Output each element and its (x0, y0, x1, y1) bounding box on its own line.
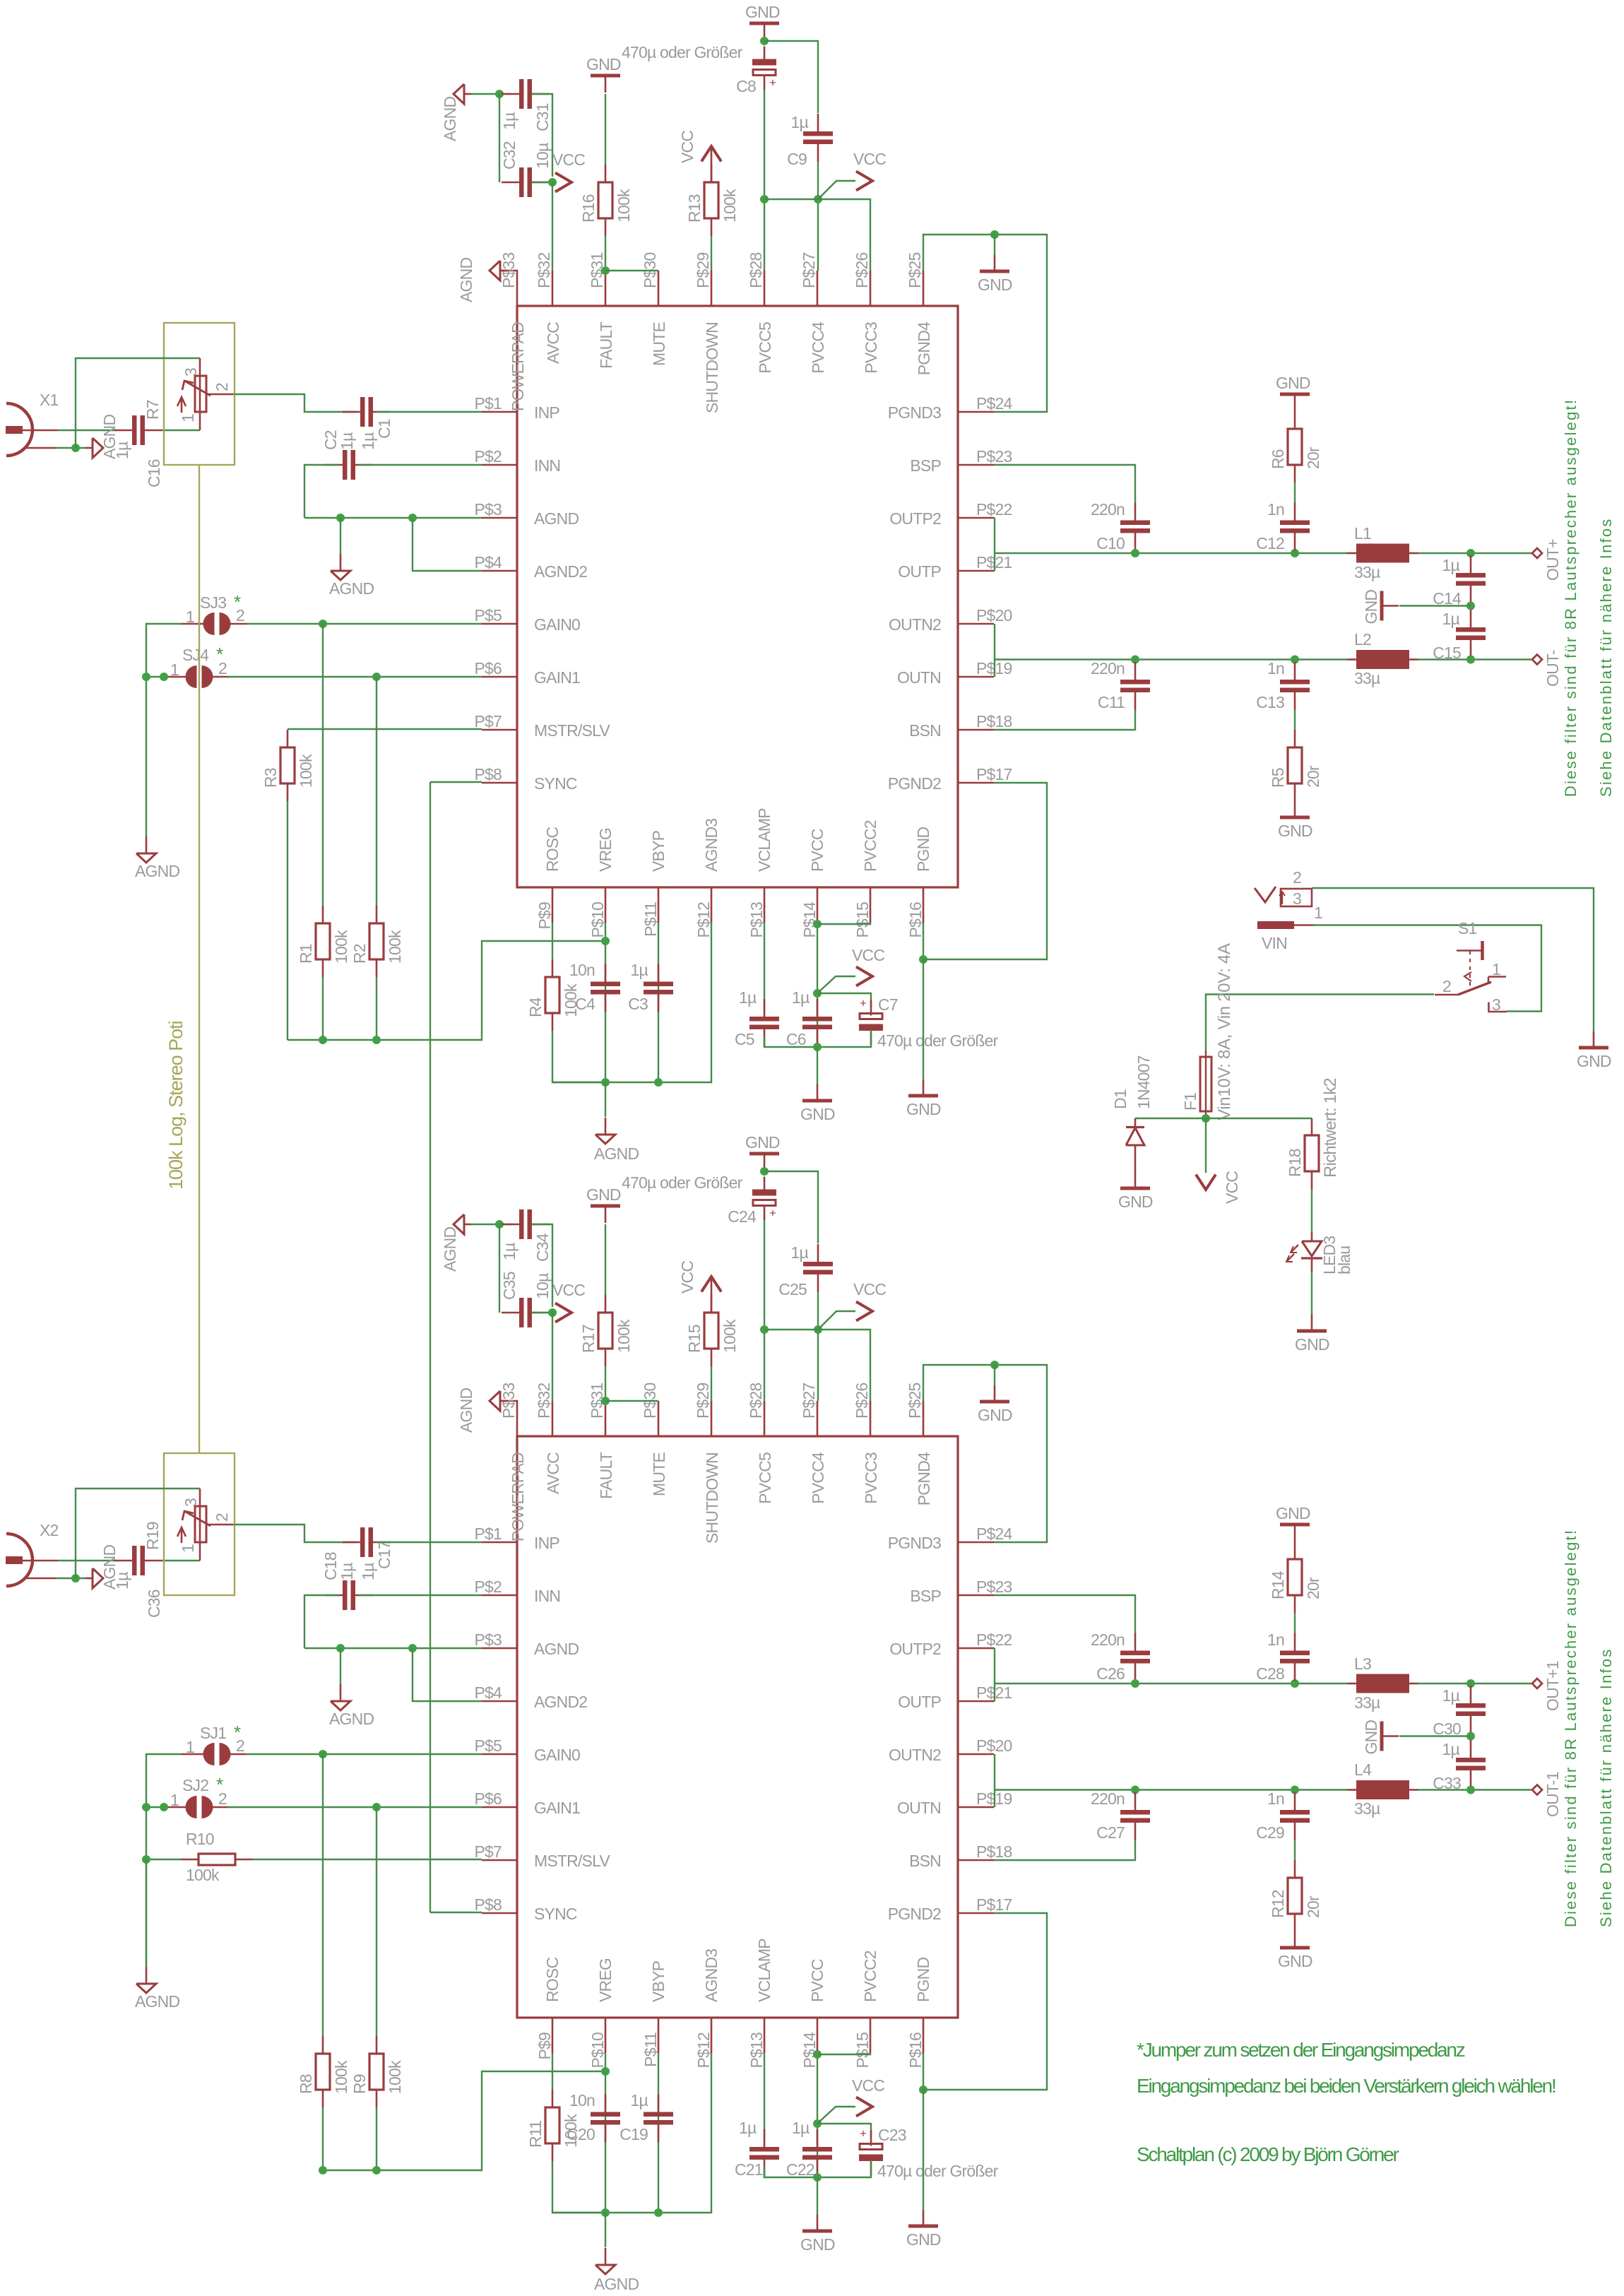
svg-text:C34: C34 (533, 1233, 552, 1262)
svg-text:GND: GND (1362, 1720, 1380, 1755)
svg-text:BSP: BSP (910, 456, 941, 475)
wire L1 to OUT+ (1418, 552, 1531, 554)
svg-text:1µ: 1µ (113, 1572, 131, 1590)
junction pvcc rail left (760, 1325, 769, 1334)
svg-text:FAULT: FAULT (597, 321, 615, 369)
capacitor C13 1n snubber (1294, 662, 1296, 680)
wire C1 to INP P$1 (377, 1541, 482, 1543)
svg-text:*: * (234, 591, 241, 613)
wire C7 branch top (817, 993, 871, 1007)
svg-text:1µ: 1µ (1442, 556, 1460, 574)
junction pvcc rail c9 (814, 195, 822, 203)
Apin P$13 VCLAMP (bottom) (764, 887, 766, 923)
potentiometer R19 100k gang (199, 1506, 201, 1542)
svg-text:P$5: P$5 (474, 1736, 502, 1755)
wire C2 left to AGND row (304, 1595, 339, 1648)
svg-text:P$29: P$29 (694, 1383, 712, 1419)
svg-text:OUTP2: OUTP2 (889, 1640, 941, 1658)
svg-text:P$6: P$6 (474, 659, 502, 677)
Bpin P$25 PGND4 (top) (923, 1401, 925, 1436)
wire SJ bus lower (146, 1859, 147, 1966)
capacitor C2 1u INN coupling (325, 464, 343, 466)
olive stereo-poti link line (198, 465, 200, 1453)
resistor R18 LED series (1311, 1118, 1313, 1135)
svg-text:GND: GND (1278, 1952, 1312, 1970)
svg-text:P$5: P$5 (474, 606, 502, 625)
svg-text:C11: C11 (1098, 693, 1125, 711)
supply VCC main (1196, 1175, 1216, 1190)
ground GND out mid (1380, 591, 1384, 621)
svg-text:1: 1 (186, 608, 194, 626)
svg-text:100k: 100k (332, 2060, 350, 2094)
junction C6 bottom (813, 2173, 822, 2182)
fuse F1 (1200, 1057, 1211, 1111)
svg-text:1µ: 1µ (500, 1243, 518, 1260)
wire GAIN1 drop (376, 1807, 377, 2037)
Bpin P$6 GAIN1 (left) (482, 1806, 517, 1809)
svg-text:C24: C24 (728, 1207, 757, 1226)
wire GAIN0 drop (322, 624, 324, 906)
svg-text:INP: INP (534, 1534, 559, 1552)
wire AGND3 P$12 (658, 2053, 711, 2213)
svg-text:PVCC: PVCC (808, 1959, 826, 2002)
junction avcc vcc (548, 178, 557, 187)
Apin P$15 PVCC2 (bottom) (870, 887, 872, 923)
svg-text:AVCC: AVCC (544, 322, 562, 364)
pin OUT- (1532, 1785, 1542, 1795)
ground GND d1 (1134, 1172, 1137, 1188)
wire to VCC (1205, 1118, 1207, 1173)
wire AGND row P$3 (304, 1647, 482, 1649)
junction fault/mute (601, 1397, 610, 1405)
Bpin P$1 INP (left) (482, 1541, 517, 1544)
ground GND top (749, 22, 779, 25)
svg-text:P$22: P$22 (976, 1631, 1012, 1649)
wire gnd stem (994, 1365, 995, 1385)
svg-text:1µ: 1µ (1442, 1740, 1460, 1758)
ground AGND powerpad (490, 1391, 500, 1411)
svg-text:VCC: VCC (1223, 1171, 1241, 1204)
svg-text:P$28: P$28 (747, 1383, 765, 1419)
Bpin P$2 INN (left) (482, 1594, 517, 1597)
Apin P$7 MSTR/SLV (left) (482, 729, 517, 731)
svg-text:1µ: 1µ (113, 442, 131, 459)
wire MUTE bridge (605, 1400, 658, 1402)
svg-text:OUT-: OUT- (1543, 650, 1562, 687)
Bpin P$33 POWERPAD (top) (500, 1401, 517, 1436)
svg-text:OUT+: OUT+ (1543, 539, 1562, 581)
svg-text:1n: 1n (1267, 1631, 1284, 1649)
supply VCC shutdown (701, 146, 721, 162)
wire AGND2 P$4 (413, 1648, 482, 1701)
svg-text:VCC: VCC (678, 1261, 697, 1294)
svg-text:P$14: P$14 (800, 901, 819, 938)
svg-text:OUTN: OUTN (897, 1799, 941, 1817)
svg-text:C36: C36 (145, 1590, 163, 1618)
svg-text:C19: C19 (620, 2125, 648, 2143)
Bpin P$32 AVCC (top) (552, 1401, 554, 1436)
resistor R2 100k (376, 906, 378, 923)
wire C2 left to AGND row (304, 465, 339, 518)
wire AVCC P$32 (552, 1313, 553, 1401)
Apin P$11 VBYP (bottom) (658, 887, 660, 923)
svg-text:AGND: AGND (594, 2275, 639, 2293)
svg-text:R17: R17 (579, 1325, 598, 1353)
svg-text:100k: 100k (615, 189, 633, 223)
svg-text:C13: C13 (1256, 693, 1284, 711)
jumper SJ3 (182, 623, 206, 625)
svg-text:GAIN1: GAIN1 (534, 668, 580, 687)
capacitor C4 10n (605, 964, 607, 982)
svg-text:R14: R14 (1269, 1570, 1287, 1599)
svg-text:C26: C26 (1096, 1664, 1125, 1683)
svg-text:P$1: P$1 (474, 1525, 502, 1543)
svg-text:F1: F1 (1181, 1093, 1199, 1111)
inductor L4 33u (1348, 1789, 1357, 1791)
svg-text:P$11: P$11 (641, 902, 660, 937)
junction AGND row 2 (408, 1644, 417, 1652)
svg-text:*: * (216, 1774, 223, 1795)
ground AGND jumper bus (146, 1967, 148, 1984)
junction VCC node (813, 2119, 822, 2128)
capacitor C26 220n bootstrap (1134, 1633, 1137, 1651)
svg-text:3: 3 (182, 1498, 200, 1507)
wire PGND4 bracket (923, 1365, 1047, 1542)
resistor R15 100k SHUTDOWN pullup (711, 1295, 713, 1313)
svg-text:+: + (860, 2127, 867, 2141)
svg-text:P$12: P$12 (694, 2032, 713, 2069)
svg-text:20r: 20r (1304, 1577, 1322, 1599)
svg-text:PGND4: PGND4 (915, 321, 933, 375)
junction VCC node (813, 989, 822, 998)
svg-text:R10: R10 (186, 1830, 214, 1848)
wire C1 to INP P$1 (377, 411, 482, 413)
svg-text:100k: 100k (615, 1319, 633, 1353)
svg-text:L2: L2 (1354, 630, 1371, 649)
pin OUT+ (1532, 1679, 1542, 1688)
svg-text:P$13: P$13 (747, 902, 766, 938)
connector X2 RCA input jack (6, 1534, 32, 1586)
wire R6 to C12 (1294, 483, 1296, 503)
wire C32 left leg (499, 94, 500, 182)
svg-text:GND: GND (978, 1406, 1012, 1424)
junction gnd c8 (760, 37, 769, 45)
wire X1 tip to C16 (58, 430, 117, 431)
junction GAIN0 (319, 620, 327, 628)
wire C32 left leg (499, 1224, 500, 1313)
svg-text:PGND: PGND (914, 1958, 932, 2002)
svg-text:GND: GND (745, 3, 780, 21)
wire ROSC P$9 (552, 2053, 553, 2090)
Bpin P$12 AGND3 (bottom) (711, 2018, 713, 2053)
wire VREG P$10 (605, 923, 606, 1082)
junction pvcc rail left (760, 195, 769, 203)
wire poti pin3 loop (199, 358, 201, 376)
wire ROSC P$9 (552, 923, 553, 959)
junction R10 left (142, 1855, 150, 1864)
svg-text:P$12: P$12 (694, 902, 713, 938)
svg-text:C31: C31 (533, 103, 552, 131)
junction C12 out (1291, 549, 1299, 557)
wire MSTR/SLV P$7 (288, 728, 482, 730)
svg-text:GND: GND (586, 1185, 621, 1204)
svg-text:Richtwert: 1k2: Richtwert: 1k2 (1321, 1078, 1340, 1178)
svg-text:1µ: 1µ (500, 112, 518, 130)
capacitor C29 1n snubber (1294, 1792, 1296, 1810)
junction avcc caps (495, 90, 504, 98)
svg-text:C17: C17 (375, 1541, 393, 1569)
junction gain bus R1 (319, 2166, 327, 2174)
wire GAIN0 drop (322, 1754, 324, 2037)
svg-text:PGND3: PGND3 (888, 1534, 941, 1552)
Apin P$31 FAULT (top) (605, 271, 607, 306)
supply VCC arrow mid (856, 2097, 872, 2117)
wire X1 ring to AGND (57, 447, 85, 449)
wire VCLAMP P$13 (764, 2053, 765, 2141)
junction C3 bottom (654, 1078, 663, 1087)
connector VIN pin1 (1257, 921, 1294, 929)
svg-text:1µ: 1µ (739, 988, 757, 1007)
svg-text:C10: C10 (1096, 534, 1125, 552)
svg-text:MSTR/SLV: MSTR/SLV (534, 1852, 610, 1870)
svg-text:GND: GND (1276, 374, 1310, 392)
svg-text:P$9: P$9 (535, 902, 554, 930)
svg-text:C5: C5 (735, 1030, 754, 1048)
wire AGND row P$3 (304, 517, 482, 519)
wire agnd3 bus (552, 1082, 658, 1083)
resistor R1 100k (322, 906, 324, 923)
svg-text:GND: GND (800, 2235, 835, 2254)
svg-text:P$25: P$25 (906, 252, 924, 288)
svg-text:100k Log, Stereo Poti: 100k Log, Stereo Poti (165, 1021, 186, 1190)
ground AGND powerpad (490, 261, 500, 280)
svg-text:10µ: 10µ (533, 143, 552, 169)
wire C13 to R5 (1294, 1840, 1296, 1860)
ground GND snubber+ (1280, 393, 1310, 396)
svg-text:P$3: P$3 (474, 500, 502, 519)
svg-text:PVCC5: PVCC5 (756, 322, 774, 374)
svg-text:GND: GND (800, 1105, 835, 1123)
supply VCC avcc (555, 173, 571, 192)
junction C13 out (1291, 1786, 1299, 1794)
svg-text:C20: C20 (567, 2125, 595, 2143)
svg-text:470µ oder Größer: 470µ oder Größer (622, 1173, 743, 1192)
ground GND snubber- (1294, 801, 1296, 817)
junction C12 out (1291, 1679, 1299, 1688)
wire PGND to GND (923, 959, 924, 1079)
wire to AGND (605, 1082, 606, 1117)
svg-text:GND: GND (906, 2230, 941, 2249)
Bpin P$11 VBYP (bottom) (658, 2018, 660, 2053)
ground AGND input (93, 438, 103, 458)
capacitor C3 1u (658, 964, 660, 982)
svg-text:VBYP: VBYP (649, 830, 668, 872)
svg-text:GND: GND (1118, 1193, 1153, 1211)
wire X2 ring to AGND (57, 1578, 85, 1579)
junction pgnd4 (990, 1361, 999, 1369)
svg-text:1µ: 1µ (739, 2119, 757, 2137)
Apin P$28 PVCC5 (top) (764, 271, 766, 306)
wire C9 branch (764, 1171, 818, 1243)
Bpin P$14 PVCC (bottom) (817, 2018, 819, 2053)
pin OUT+ (1532, 548, 1542, 558)
svg-text:PVCC4: PVCC4 (809, 321, 827, 374)
junction SJ4 pin1 (160, 1803, 168, 1811)
wire C31 right (532, 1224, 552, 1307)
svg-text:Vin10V: 8A, Vin 20V: 4A: Vin10V: 8A, Vin 20V: 4A (1215, 943, 1234, 1120)
wire pvcc rail (764, 199, 870, 271)
svg-text:P$11: P$11 (641, 2032, 660, 2067)
ground GND pgnd4 (994, 1385, 996, 1402)
ground AGND below P$3 (340, 1684, 342, 1701)
wire GAIN0 P$5 (247, 1753, 482, 1755)
wire L2 to OUT- (1418, 658, 1531, 660)
wire OUTP pin stubs (994, 1647, 995, 1649)
svg-text:Schaltplan (c) 2009 by Björn G: Schaltplan (c) 2009 by Björn Görner (1137, 2143, 1399, 2165)
wire LED3 to GND (1311, 1272, 1312, 1315)
svg-text:PVCC2: PVCC2 (861, 1951, 879, 2002)
svg-text:SYNC: SYNC (534, 774, 577, 793)
svg-text:PGND2: PGND2 (888, 1905, 941, 1923)
ground GND mid (817, 1084, 819, 1101)
svg-text:MSTR/SLV: MSTR/SLV (534, 721, 610, 740)
Bpin P$10 VREG (bottom) (605, 2018, 607, 2053)
wire R13 to P$29 (711, 1366, 712, 1401)
IC UA: class-D amplifier block (517, 306, 958, 887)
svg-text:PVCC2: PVCC2 (861, 820, 879, 872)
svg-text:GND: GND (1295, 1335, 1329, 1354)
Apin P$4 AGND2 (left) (482, 570, 517, 572)
svg-text:P$15: P$15 (853, 902, 872, 938)
ground GND pgnd (923, 2210, 925, 2226)
wire pvcc rail (764, 1330, 870, 1401)
svg-text:P$26: P$26 (853, 252, 871, 288)
Apin P$3 AGND (left) (482, 517, 517, 519)
svg-text:C9: C9 (787, 150, 807, 168)
svg-text:P$16: P$16 (906, 2032, 925, 2069)
svg-text:470µ oder Größer: 470µ oder Größer (877, 2162, 999, 2180)
svg-text:220n: 220n (1091, 1789, 1125, 1808)
wire SJ pin1 bus (146, 1754, 182, 1967)
capacitor C24 470u bulk (764, 1177, 766, 1192)
capacitor C22 1u PVCC (817, 2129, 819, 2147)
svg-text:1µ: 1µ (338, 432, 356, 450)
junction SJ bus (142, 1803, 150, 1811)
capacitor C15 1u out filter (1470, 610, 1472, 627)
svg-text:SHUTDOWN: SHUTDOWN (703, 322, 721, 413)
svg-text:PVCC5: PVCC5 (756, 1452, 774, 1504)
ground AGND analog (605, 2248, 607, 2265)
svg-text:SJ4: SJ4 (182, 646, 209, 664)
svg-text:VBYP: VBYP (649, 1960, 668, 2002)
ground AGND avcc (454, 84, 464, 104)
wire C2 to INN P$2 (359, 464, 482, 466)
svg-text:P$10: P$10 (588, 2032, 607, 2069)
wire VBYP P$11 (658, 923, 659, 1082)
svg-text:GAIN1: GAIN1 (534, 1799, 580, 1817)
svg-text:blau: blau (1335, 1246, 1353, 1274)
Bpin P$18 BSN (right) (959, 1859, 994, 1862)
svg-text:PGND4: PGND4 (915, 1452, 933, 1505)
connector VIN switch box (1281, 889, 1312, 906)
junction SJ bus (142, 673, 150, 681)
svg-text:P$13: P$13 (747, 2032, 766, 2069)
svg-text:P$32: P$32 (535, 252, 553, 288)
junction VREG top (601, 2067, 610, 2076)
svg-text:L1: L1 (1354, 524, 1371, 543)
supply VCC arrow mid (856, 967, 872, 986)
junction C15 out (1466, 1786, 1475, 1794)
ground GND pgnd4 (994, 255, 996, 271)
junction vcc node (1202, 1114, 1210, 1123)
wire C5 bottom (764, 1036, 817, 1047)
wire poti wiper to C1 (235, 1525, 357, 1542)
ground AGND analog (605, 1118, 607, 1135)
svg-text:1: 1 (179, 1544, 197, 1553)
svg-text:+: + (860, 997, 867, 1010)
svg-text:X2: X2 (40, 1521, 59, 1539)
svg-text:P$9: P$9 (535, 2032, 554, 2060)
junction C15 out (1466, 656, 1475, 664)
wire GAIN0 P$5 (247, 623, 482, 625)
svg-text:POWERPAD: POWERPAD (509, 322, 527, 411)
wire agnd to caps (471, 1224, 511, 1225)
svg-text:Siehe Datenblatt für nähere In: Siehe Datenblatt für nähere Infos (1597, 1648, 1615, 1927)
Apin P$19 OUTN (right) (959, 676, 994, 678)
wire GAIN1 P$6 (227, 676, 482, 677)
wire C31 right (532, 94, 552, 177)
Bpin P$3 AGND (left) (482, 1647, 517, 1650)
capacitor C14 1u out filter (1470, 555, 1472, 573)
wire C7 bottom (817, 2160, 871, 2177)
Bpin P$16 PGND (bottom) (923, 2018, 925, 2053)
svg-text:2: 2 (213, 383, 231, 391)
wire C13 to R5 (1294, 710, 1296, 730)
svg-text:1µ: 1µ (1442, 1686, 1460, 1705)
svg-text:C7: C7 (878, 995, 898, 1014)
capacitor C33 1u out filter (1470, 1740, 1472, 1758)
Apin P$29 SHUTDOWN (top) (711, 271, 713, 306)
svg-text:P$24: P$24 (976, 1525, 1013, 1543)
svg-text:C29: C29 (1256, 1823, 1284, 1842)
svg-text:OUTP: OUTP (898, 562, 941, 581)
Apin P$23 BSP (right) (959, 464, 994, 466)
svg-text:P$4: P$4 (474, 553, 502, 572)
inductor L2 33u (1348, 658, 1357, 661)
svg-text:2: 2 (1293, 868, 1301, 887)
svg-text:1: 1 (170, 661, 179, 679)
svg-text:GND: GND (586, 55, 621, 73)
svg-text:SYNC: SYNC (534, 1905, 577, 1923)
svg-text:Siehe Datenblatt für nähere In: Siehe Datenblatt für nähere Infos (1597, 518, 1615, 797)
svg-text:AGND: AGND (441, 97, 459, 141)
svg-text:GND: GND (1577, 1052, 1611, 1070)
Apin P$2 INN (left) (482, 464, 517, 466)
svg-text:GND: GND (978, 276, 1012, 294)
svg-text:+: + (769, 76, 776, 90)
wire PVCC P$14 (817, 923, 818, 1047)
wire C2 to INN P$2 (359, 1594, 482, 1596)
Bpin P$7 MSTR/SLV (left) (482, 1859, 517, 1862)
svg-text:P$16: P$16 (906, 902, 925, 938)
svg-text:C16: C16 (145, 459, 163, 487)
svg-text:470µ oder Größer: 470µ oder Größer (622, 43, 743, 61)
capacitor C19 1u (658, 2095, 660, 2112)
resistor R16 100k FAULT pullup (605, 165, 607, 182)
svg-text:1: 1 (186, 1738, 194, 1756)
svg-text:C6: C6 (786, 1030, 806, 1048)
Apin P$8 SYNC (left) (482, 782, 517, 784)
